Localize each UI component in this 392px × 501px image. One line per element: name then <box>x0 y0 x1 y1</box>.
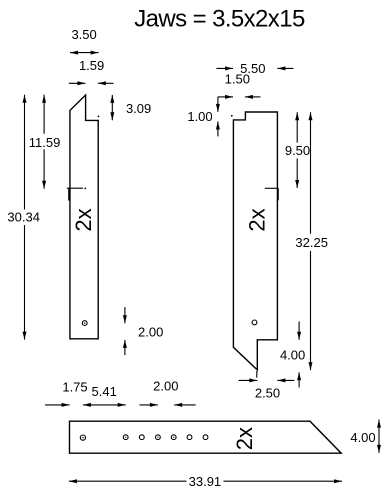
dim 2.50 <box>239 379 258 381</box>
bar hole 1 <box>80 435 85 440</box>
svg-text:4.00: 4.00 <box>350 430 375 445</box>
svg-text:2x: 2x <box>232 427 257 450</box>
svg-text:1.59: 1.59 <box>79 58 104 73</box>
svg-text:Jaws = 3.5x2x15: Jaws = 3.5x2x15 <box>134 6 305 33</box>
right jaw hole <box>252 320 257 325</box>
svg-text:3.09: 3.09 <box>126 101 151 116</box>
svg-text:1.50: 1.50 <box>225 72 250 87</box>
left jaw corner dot <box>98 116 100 118</box>
svg-text:2x: 2x <box>71 208 96 231</box>
left jaw clamp tick <box>67 187 83 189</box>
svg-text:3.50: 3.50 <box>71 27 96 42</box>
dim 3.09 <box>111 95 113 120</box>
dim 5.50 <box>216 67 233 69</box>
dim 11.59 <box>43 95 45 134</box>
left jaw outline <box>70 95 98 339</box>
dim 2.00 left jaw <box>124 307 126 323</box>
left jaw hole <box>82 321 87 326</box>
svg-text:2.00: 2.00 <box>153 378 178 393</box>
svg-text:4.00: 4.00 <box>280 348 305 363</box>
dim 33.91 <box>69 480 187 482</box>
dim 30.34 <box>24 95 26 210</box>
svg-text:32.25: 32.25 <box>295 235 328 250</box>
svg-text:5.41: 5.41 <box>92 384 117 399</box>
svg-text:9.50: 9.50 <box>285 143 310 158</box>
dim 2.00 bar <box>140 404 158 406</box>
svg-text:2.00: 2.00 <box>138 324 163 339</box>
dim 4.00 right jaw <box>298 321 300 339</box>
svg-text:1.75: 1.75 <box>62 379 87 394</box>
svg-text:2.50: 2.50 <box>255 386 280 401</box>
dim 32.25 <box>310 112 312 234</box>
dim 1.59 <box>69 82 86 84</box>
left jaw edge stub <box>68 188 70 200</box>
right jaw corner dot <box>231 115 233 117</box>
dim 9.50 <box>296 112 298 143</box>
dim 1.75 <box>45 404 70 406</box>
dim 3.50 <box>70 52 99 54</box>
dim 1.50 <box>218 96 233 98</box>
svg-text:30.34: 30.34 <box>7 210 40 225</box>
dim 4.00 bar <box>378 420 380 453</box>
svg-text:33.91: 33.91 <box>189 474 222 489</box>
right jaw edge stub <box>277 188 279 200</box>
svg-text:11.59: 11.59 <box>29 135 61 150</box>
bar holes group <box>123 435 128 440</box>
dim 5.41 <box>83 404 126 406</box>
right jaw outline <box>233 112 277 370</box>
dim 1.00 <box>217 97 219 112</box>
bottom bar outline <box>70 421 342 453</box>
svg-text:1.00: 1.00 <box>187 109 212 124</box>
svg-text:2x: 2x <box>244 208 269 231</box>
right jaw clamp tick <box>265 187 279 189</box>
